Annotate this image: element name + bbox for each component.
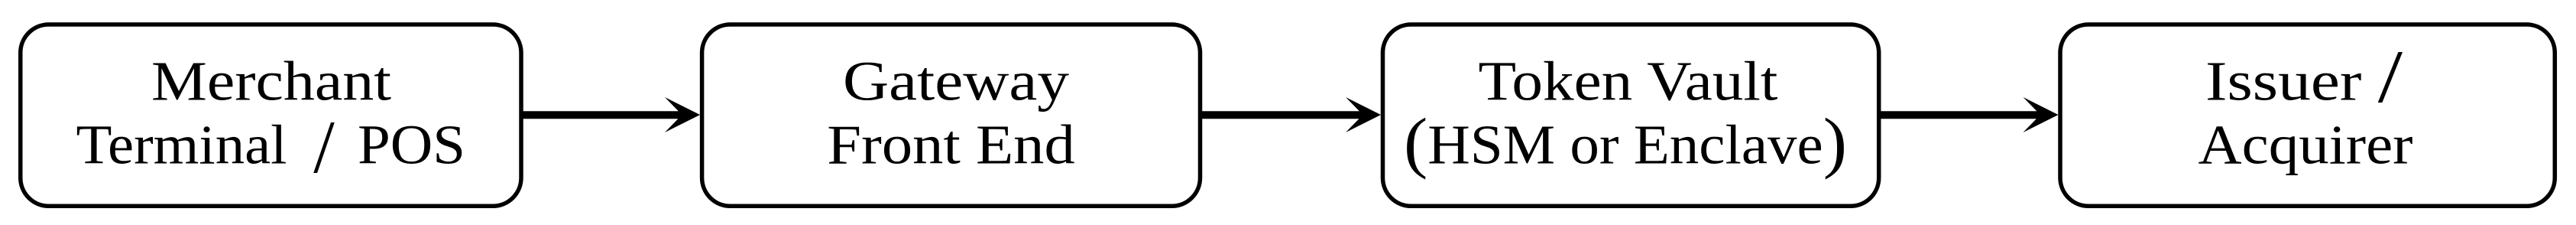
svg-text:Acquirer: Acquirer — [2199, 114, 2413, 176]
svg-text:Gateway: Gateway — [843, 51, 1070, 112]
svg-text:Merchant: Merchant — [151, 51, 391, 112]
svg-text:Token Vault: Token Vault — [1479, 51, 1778, 112]
svg-text:(HSM or Enclave): (HSM or Enclave) — [1404, 106, 1847, 181]
svg-text:Terminal: Terminal — [76, 114, 287, 176]
svg-text:POS: POS — [358, 114, 465, 176]
svg-text:/: / — [313, 106, 335, 189]
svg-text:Front End: Front End — [827, 114, 1075, 176]
